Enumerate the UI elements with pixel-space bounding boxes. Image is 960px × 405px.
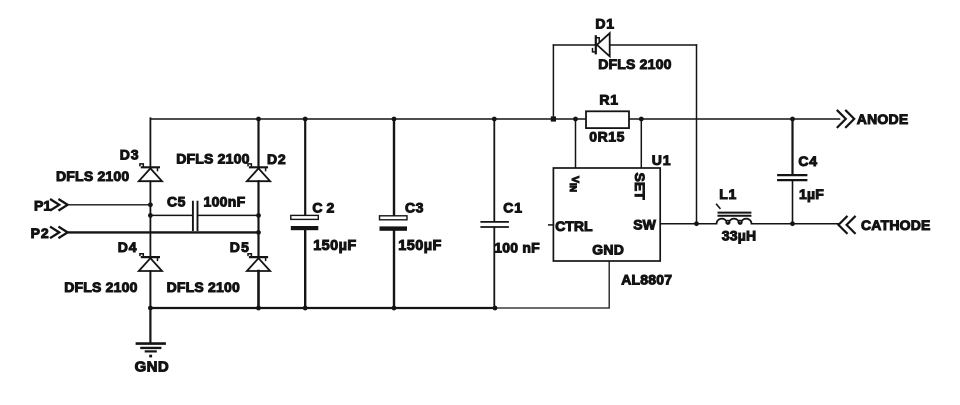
label ANODE xyxy=(857,111,909,127)
wire SW to L1 xyxy=(660,223,716,225)
node bottom rail C3 junction dot xyxy=(392,306,397,311)
node top rail C2 junction dot xyxy=(303,117,308,122)
capacitor C5 xyxy=(193,202,198,230)
svg-text:AL8807: AL8807 xyxy=(621,272,672,288)
wire D1 top horizontal xyxy=(553,44,696,46)
svg-text:C5: C5 xyxy=(167,194,186,210)
label AL8807 xyxy=(621,272,672,288)
svg-text:D4: D4 xyxy=(118,239,138,255)
svg-text:DFLS 2100: DFLS 2100 xyxy=(167,279,240,295)
connector ANODE chevrons xyxy=(838,111,855,127)
label C3 xyxy=(405,199,424,215)
connector CATHODE chevrons xyxy=(839,217,855,233)
svg-text:SET: SET xyxy=(632,173,648,201)
wire D2 column upper xyxy=(257,118,259,166)
label 100 nF for C1 xyxy=(494,239,540,255)
svg-text:1µF: 1µF xyxy=(799,186,824,202)
label DFLS 2100 for D2 xyxy=(176,151,249,167)
svg-text:P1: P1 xyxy=(34,197,51,213)
label DFLS 2100 for D4 xyxy=(64,279,137,295)
svg-text:D1: D1 xyxy=(595,16,615,32)
node SET rail junction dot xyxy=(639,117,644,122)
diode D1 xyxy=(593,33,610,56)
label P2 xyxy=(31,225,50,241)
wire P2 xyxy=(67,231,258,233)
node top rail C3 junction dot xyxy=(392,117,397,122)
svg-text:P2: P2 xyxy=(31,225,50,241)
connector P1 chevrons xyxy=(51,200,68,210)
node top rail D2 junction dot xyxy=(256,117,261,122)
wire C2 lower xyxy=(304,230,306,308)
node P2 junction dot xyxy=(256,230,261,235)
svg-text:100nF: 100nF xyxy=(204,194,246,210)
wire SET pin xyxy=(640,119,642,168)
svg-text:33µH: 33µH xyxy=(722,227,757,243)
diode D4 xyxy=(139,254,162,271)
svg-text:DFLS 2100: DFLS 2100 xyxy=(176,151,249,167)
label P1 xyxy=(34,197,51,213)
label DFLS 2100 for D1 xyxy=(598,56,671,72)
label GND xyxy=(135,358,170,375)
capacitor C1 xyxy=(481,222,508,227)
svg-text:DFLS 2100: DFLS 2100 xyxy=(56,168,129,184)
label C5 xyxy=(167,194,186,210)
pin label SET xyxy=(632,173,648,201)
inductor L1 xyxy=(717,204,752,224)
svg-text:C2: C2 xyxy=(312,199,338,215)
svg-text:CATHODE: CATHODE xyxy=(861,217,931,233)
label 0R15 xyxy=(589,129,625,145)
pin label VIN xyxy=(568,176,581,192)
label C4 xyxy=(798,153,818,169)
wire D1 right vertical down to SW xyxy=(696,45,698,224)
wire C5 left xyxy=(150,214,192,216)
wire bottom rail thin to IC GND xyxy=(495,261,609,308)
diode D2 xyxy=(247,164,270,181)
label 33uH xyxy=(722,227,757,243)
wire D2 anode down to D5 xyxy=(257,181,259,256)
op-amp U1 AL8807 IC box xyxy=(553,168,660,261)
wire VIN pin xyxy=(575,119,577,168)
svg-text:D5: D5 xyxy=(230,239,250,255)
label CATHODE xyxy=(861,217,931,233)
label 150uF for C2 xyxy=(313,238,356,254)
svg-text:L1: L1 xyxy=(719,186,737,202)
wire bottom rail thick xyxy=(150,307,495,309)
label D4 xyxy=(118,239,138,255)
wire D1 left vertical xyxy=(552,45,554,119)
svg-text:C1: C1 xyxy=(503,200,523,216)
svg-text:C3: C3 xyxy=(405,199,424,215)
wire D3 column upper xyxy=(149,118,151,166)
wire P1 xyxy=(67,204,150,206)
svg-text:C4: C4 xyxy=(798,153,818,169)
svg-text:150µF: 150µF xyxy=(313,238,356,254)
node bottom rail C2 junction dot xyxy=(303,306,308,311)
label L1 xyxy=(719,186,737,202)
svg-text:R1: R1 xyxy=(599,92,619,108)
svg-text:DFLS 2100: DFLS 2100 xyxy=(598,56,671,72)
svg-text:SW: SW xyxy=(633,216,656,232)
node bottom rail D5 junction dot xyxy=(256,306,261,311)
pin label CTRL xyxy=(555,218,593,234)
wire L1 to cathode xyxy=(752,223,839,225)
svg-text:GND: GND xyxy=(135,358,170,375)
wire D5 anode to bottom rail xyxy=(257,271,260,308)
wire C5 right xyxy=(198,214,259,216)
capacitor C2 xyxy=(291,215,319,230)
wire C2 column upper xyxy=(304,118,306,215)
node C5-left junction dot xyxy=(148,213,153,218)
svg-text:D2: D2 xyxy=(267,151,287,167)
resistor R1 xyxy=(586,111,629,128)
wire C1 lower xyxy=(493,228,495,308)
label DFLS 2100 for D5 xyxy=(167,279,240,295)
wire D4 anode to bottom rail xyxy=(149,271,151,308)
svg-text:GND: GND xyxy=(592,241,624,257)
label 1uF xyxy=(799,186,824,202)
wire C4 lower xyxy=(792,181,794,224)
connector P2 chevrons xyxy=(51,227,68,237)
wire C3 lower xyxy=(393,231,395,308)
label 100nF for C5 xyxy=(204,194,246,210)
diode D5 xyxy=(247,254,270,271)
svg-text:D3: D3 xyxy=(120,147,140,163)
node P1 junction dot xyxy=(148,202,153,207)
label R1 xyxy=(599,92,619,108)
node C5-right junction dot xyxy=(256,213,261,218)
wire C4 upper xyxy=(791,119,793,174)
pin stub CTRL xyxy=(549,224,554,226)
node C4 bottom junction dot xyxy=(790,221,795,226)
wire top rail xyxy=(150,118,839,120)
label C2 xyxy=(312,199,338,215)
pin label GND xyxy=(592,241,624,257)
node VIN rail junction dot xyxy=(573,117,578,122)
label D5 xyxy=(230,239,250,255)
label DFLS 2100 for D3 xyxy=(56,168,129,184)
svg-text:100 nF: 100 nF xyxy=(494,239,540,255)
node bottom rail C1 junction dot xyxy=(493,306,498,311)
label D3 xyxy=(120,147,140,163)
label C1 xyxy=(503,200,523,216)
capacitor C4 xyxy=(778,175,806,180)
wire C1 column upper xyxy=(493,118,495,221)
node D1-left rail junction square dot xyxy=(551,116,556,121)
label D1 xyxy=(595,16,615,32)
svg-text:CTRL: CTRL xyxy=(555,218,593,234)
svg-text:DFLS 2100: DFLS 2100 xyxy=(64,279,137,295)
diode D3 xyxy=(139,164,162,181)
node bottom rail GND junction dot xyxy=(148,306,153,311)
wire C3 column upper xyxy=(393,118,395,215)
svg-text:U1: U1 xyxy=(652,152,672,168)
svg-text:ANODE: ANODE xyxy=(857,111,909,127)
svg-text:0R15: 0R15 xyxy=(589,129,625,145)
label D2 xyxy=(267,151,287,167)
node SW D1 junction dot xyxy=(694,221,699,226)
node C4 top junction dot xyxy=(790,117,795,122)
capacitor C3 xyxy=(380,216,408,231)
label U1 xyxy=(652,152,672,168)
pin label SW xyxy=(633,216,656,232)
node top rail C1 junction dot xyxy=(492,117,497,122)
ground symbol xyxy=(137,308,165,357)
svg-text:150µF: 150µF xyxy=(398,238,441,254)
label 150uF for C3 xyxy=(398,238,441,254)
wire D3 anode to node A and down to D4 xyxy=(149,181,151,256)
